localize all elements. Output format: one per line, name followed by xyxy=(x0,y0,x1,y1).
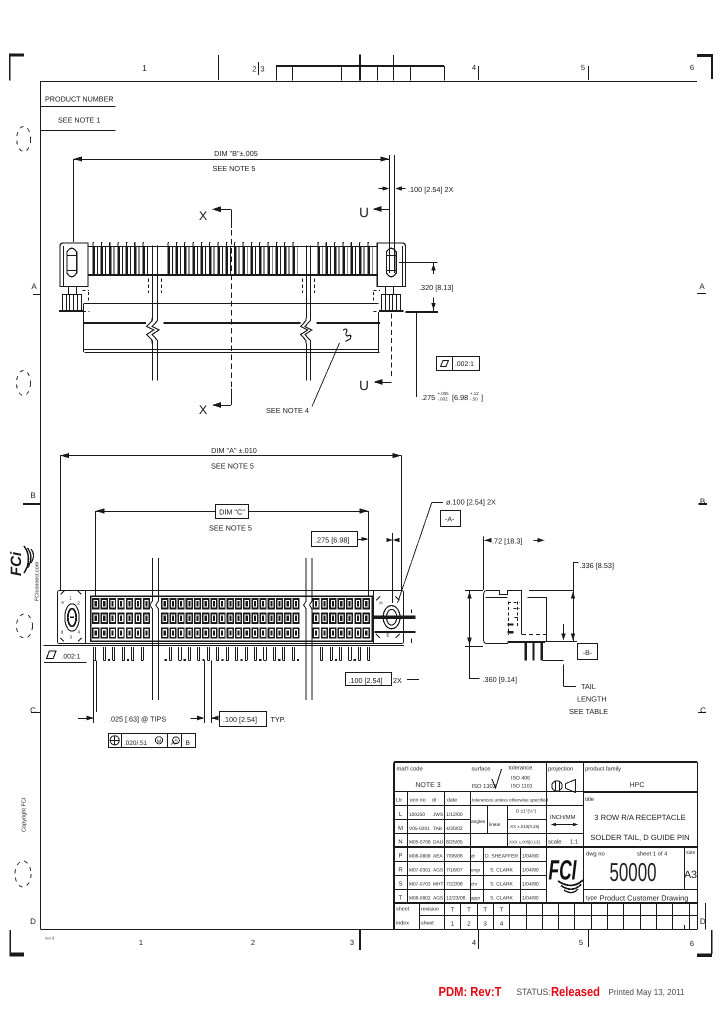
svg-text:linear: linear xyxy=(489,822,501,828)
svg-text:.275 [6.98]: .275 [6.98] xyxy=(315,536,350,545)
top sheet-index strip xyxy=(276,65,444,67)
svg-text:sheet: sheet xyxy=(396,907,410,913)
svg-text:date: date xyxy=(447,798,457,804)
svg-text:U: U xyxy=(359,378,369,393)
dimension .100 TYP tails xyxy=(204,661,206,724)
svg-text:STATUS:: STATUS: xyxy=(517,987,551,997)
svg-text:SOLDER TAIL, D GUIDE PIN: SOLDER TAIL, D GUIDE PIN xyxy=(590,833,689,842)
svg-text:C: C xyxy=(700,706,706,715)
dimension .336 [8.53] xyxy=(573,562,575,642)
section line U dashed xyxy=(391,314,393,379)
svg-text:7/06/06: 7/06/06 xyxy=(446,854,463,860)
svg-text:X: X xyxy=(199,403,208,417)
front view right guide tiny tick marks xyxy=(411,610,413,614)
section view top line to dim 336 xyxy=(529,590,573,592)
svg-text:6: 6 xyxy=(690,63,694,72)
top zone tick after 4 xyxy=(478,66,480,80)
svg-text:DIM "A" ±.010: DIM "A" ±.010 xyxy=(211,446,257,455)
dimension .320 [8.13] xyxy=(399,262,438,264)
side view right hidden corner dashes xyxy=(374,290,381,292)
svg-text:-A-: -A- xyxy=(445,517,455,524)
front view solder tails xyxy=(93,647,95,660)
section view seat line to datum B xyxy=(545,641,577,643)
svg-text:[6.98: [6.98 xyxy=(452,393,468,402)
side view break line pair right xyxy=(306,246,308,381)
svg-text:D ±1°(½°): D ±1°(½°) xyxy=(516,809,537,814)
svg-text:SEE NOTE 5: SEE NOTE 5 xyxy=(209,524,252,533)
svg-text:1/04/90: 1/04/90 xyxy=(522,882,539,888)
corner bracket bottom-right xyxy=(711,930,713,954)
svg-text:A: A xyxy=(699,282,705,291)
svg-text:title: title xyxy=(585,796,594,803)
side view left guide capsule xyxy=(67,248,77,277)
svg-text:S. CLARK: S. CLARK xyxy=(490,896,513,902)
svg-text:.025 [.63] @ TIPS: .025 [.63] @ TIPS xyxy=(109,715,166,724)
svg-text:-.50: -.50 xyxy=(470,397,478,402)
svg-text:S. CLARK: S. CLARK xyxy=(490,882,513,888)
svg-text:tolerance: tolerance xyxy=(509,765,533,772)
title block outer border xyxy=(394,761,697,763)
section view solder tails xyxy=(525,643,527,660)
side view comb fins xyxy=(92,247,95,274)
svg-text:Copyright FCI: Copyright FCI xyxy=(21,797,28,832)
dimension .72 [18.3] xyxy=(483,537,485,591)
svg-text:-.002: -.002 xyxy=(438,397,449,402)
svg-text:8/25/05: 8/25/05 xyxy=(446,840,463,846)
side view break line pair left xyxy=(152,246,154,381)
svg-text:2X: 2X xyxy=(393,676,402,685)
svg-text:R: R xyxy=(398,867,403,874)
svg-text:5: 5 xyxy=(579,938,583,947)
svg-text:S. CLARK: S. CLARK xyxy=(490,868,513,874)
svg-text:1/04/90: 1/04/90 xyxy=(522,854,539,860)
right zone tick B thick xyxy=(699,503,708,505)
svg-text:FCIconnect.com: FCIconnect.com xyxy=(35,561,41,601)
svg-text:PRODUCT NUMBER: PRODUCT NUMBER xyxy=(45,95,114,104)
product number table xyxy=(41,106,116,108)
svg-text:B: B xyxy=(186,740,191,747)
front view break wavy line pair left xyxy=(150,558,153,700)
svg-text:1: 1 xyxy=(142,63,147,73)
dimension .275 [6.98] boxed xyxy=(312,532,358,547)
bottom zone tick thick xyxy=(359,930,361,950)
svg-text:M07-0703: M07-0703 xyxy=(409,882,431,888)
svg-text:SEE NOTE 5: SEE NOTE 5 xyxy=(213,164,256,173)
dimension DIM A xyxy=(60,455,402,457)
front view break wavy line pair right xyxy=(304,558,307,700)
side view left hidden corner dashes xyxy=(83,290,90,292)
section view tail tip line xyxy=(543,660,564,662)
flatness callout front view xyxy=(44,645,89,647)
svg-text:M08-0902: M08-0902 xyxy=(409,896,431,902)
svg-text:C: C xyxy=(30,706,36,715)
svg-text:surface: surface xyxy=(472,766,491,773)
svg-text:+.12: +.12 xyxy=(470,391,479,396)
svg-text:dwg no: dwg no xyxy=(586,851,605,858)
svg-text:.72 [18.3]: .72 [18.3] xyxy=(492,536,522,545)
svg-text:M05-0708: M05-0708 xyxy=(409,840,431,846)
svg-text:Ltr: Ltr xyxy=(396,798,402,804)
svg-text:SEE NOTE 1: SEE NOTE 1 xyxy=(58,116,100,125)
svg-text:T: T xyxy=(500,907,504,914)
svg-text:2: 2 xyxy=(251,938,255,947)
side view comb top line xyxy=(88,246,377,248)
svg-text:.100 [2.54]: .100 [2.54] xyxy=(223,715,257,724)
svg-text:1:1: 1:1 xyxy=(570,840,578,846)
drawing frame border xyxy=(41,81,698,83)
svg-text:T: T xyxy=(467,907,471,914)
datum B box xyxy=(578,644,598,660)
title block sheet index verticals xyxy=(419,903,421,930)
top zone tick between 1 and 2 xyxy=(218,55,220,80)
svg-text:MHT: MHT xyxy=(433,882,443,888)
side view right ribbed foot xyxy=(382,295,401,311)
svg-text:TAIL: TAIL xyxy=(581,682,596,691)
svg-text:N: N xyxy=(398,840,402,846)
svg-text:FCi: FCi xyxy=(8,551,25,576)
svg-text:M: M xyxy=(157,739,161,745)
front view right guide ovals xyxy=(383,606,400,629)
dimension DIM C xyxy=(95,511,368,513)
svg-text:type: type xyxy=(586,896,597,902)
front view pin columns xyxy=(92,598,99,609)
svg-text:A: A xyxy=(31,282,37,291)
svg-text:NOTE 3: NOTE 3 xyxy=(415,782,440,789)
svg-text:.275: .275 xyxy=(421,393,435,402)
tail length leader xyxy=(563,624,565,637)
svg-text:E: E xyxy=(386,633,389,638)
side view hidden dashes near left break xyxy=(148,279,150,294)
front view left guide block detail xyxy=(61,591,65,595)
svg-text:ISO 1302: ISO 1302 xyxy=(472,783,497,790)
svg-text:size: size xyxy=(686,850,695,856)
svg-text:S: S xyxy=(398,881,402,888)
svg-text:.320 [8.13]: .320 [8.13] xyxy=(419,283,454,292)
right zone tick A xyxy=(697,293,706,295)
registration ellipse top-left margin xyxy=(17,127,31,152)
side view hidden dashes near right break xyxy=(302,279,304,294)
side view left foot neck xyxy=(68,287,70,295)
svg-text:4: 4 xyxy=(472,63,476,72)
svg-text:5: 5 xyxy=(581,63,585,72)
svg-text:TYP.: TYP. xyxy=(271,715,286,724)
svg-text:appr: appr xyxy=(471,896,481,901)
left zone tick B thick xyxy=(23,503,41,505)
svg-text:ø.100 [2.54] 2X: ø.100 [2.54] 2X xyxy=(446,498,496,507)
front view right guide slot thick bar xyxy=(372,616,415,619)
svg-text:.100 [2.54] 2X: .100 [2.54] 2X xyxy=(408,185,454,194)
svg-text:+.005: +.005 xyxy=(438,391,450,396)
svg-text:50000: 50000 xyxy=(610,857,657,887)
front view base line under body xyxy=(58,645,405,647)
section view rear shoulder line xyxy=(527,597,546,599)
section view seating plane thick line xyxy=(507,641,545,643)
svg-text:H: H xyxy=(379,601,382,606)
svg-text:1/12/00: 1/12/00 xyxy=(446,812,463,818)
dimension .025 tip width xyxy=(93,661,95,724)
datum A box xyxy=(441,511,461,527)
dimension .360 [9.14] xyxy=(469,590,471,646)
section view inner face line xyxy=(486,597,508,599)
svg-text:FCI: FCI xyxy=(549,855,578,886)
side view right end block xyxy=(377,243,405,287)
svg-text:SEE NOTE 5: SEE NOTE 5 xyxy=(211,462,254,471)
svg-text:Printed May 13, 2011: Printed May 13, 2011 xyxy=(609,987,685,997)
section view hidden contact dashes xyxy=(508,602,510,636)
svg-text:U: U xyxy=(359,205,369,220)
svg-text:D. SHEAFFER: D. SHEAFFER xyxy=(485,854,518,860)
svg-text:12/23/08: 12/23/08 xyxy=(446,896,466,902)
svg-text:product family: product family xyxy=(585,766,621,773)
right zone tick C xyxy=(698,712,706,714)
svg-text:7/16/07: 7/16/07 xyxy=(446,868,463,874)
corner bracket top-left xyxy=(9,54,24,57)
svg-text:X: X xyxy=(199,209,208,223)
Copyright FCI text left margin rotated xyxy=(21,797,28,832)
svg-text:1: 1 xyxy=(139,938,143,947)
svg-text:V05-0201: V05-0201 xyxy=(409,826,430,832)
corner bracket top-right xyxy=(697,54,713,57)
front view left block edge xyxy=(85,590,87,643)
corner bracket bottom-left xyxy=(10,930,11,956)
front view pin field box xyxy=(91,596,372,641)
svg-text:.XXX ±.005[0.13]: .XXX ±.005[0.13] xyxy=(508,840,540,845)
registration ellipse zone D left margin xyxy=(15,861,31,887)
side view right guide capsule xyxy=(386,248,396,277)
dimension .100 [2.54] 2X bottom boxed xyxy=(346,673,392,686)
dimension arrows at guide pin center xyxy=(386,538,393,542)
svg-text:HPC: HPC xyxy=(630,782,645,789)
side view comb bottom line xyxy=(88,274,377,276)
section view outline xyxy=(486,591,522,635)
svg-text:SEE TABLE: SEE TABLE xyxy=(569,707,608,716)
title block vertical lines xyxy=(407,792,409,904)
svg-text:B: B xyxy=(30,491,35,500)
bottom zone tick after 5 xyxy=(588,930,590,947)
svg-text:ISO 1101: ISO 1101 xyxy=(511,784,533,790)
registration ellipse zone C left margin xyxy=(17,614,33,638)
svg-text:.002:1: .002:1 xyxy=(455,361,474,368)
svg-text:AGS: AGS xyxy=(433,896,443,902)
svg-text:4: 4 xyxy=(472,938,476,947)
svg-text:dr: dr xyxy=(471,854,476,859)
svg-text:mat'l code: mat'l code xyxy=(397,766,423,773)
bottom zone tick after 4 xyxy=(478,930,480,949)
side view seating extension line right xyxy=(406,311,439,313)
side view right guide pin lines xyxy=(389,155,391,273)
svg-text:1/04/90: 1/04/90 xyxy=(522,868,539,874)
svg-text:.XX ±.010[0.25]: .XX ±.010[0.25] xyxy=(509,824,539,829)
svg-text:Released: Released xyxy=(551,984,600,999)
side view connector top outline group xyxy=(59,155,438,380)
svg-text:4/30/02: 4/30/02 xyxy=(446,826,463,832)
title block horizontal lines xyxy=(394,791,583,793)
svg-text:T: T xyxy=(399,895,403,902)
svg-text:revision: revision xyxy=(421,907,439,913)
svg-text:AGS: AGS xyxy=(433,868,443,874)
svg-text:sheet: sheet xyxy=(421,921,434,927)
position tolerance frame xyxy=(109,734,196,748)
svg-text:.020/.51: .020/.51 xyxy=(124,740,148,747)
svg-text:M06-0808: M06-0808 xyxy=(409,854,431,860)
svg-text:T: T xyxy=(451,907,455,914)
section view hidden line to rear xyxy=(522,634,546,636)
svg-text:DIM "C": DIM "C" xyxy=(219,508,245,517)
svg-text:ecn no: ecn no xyxy=(410,798,426,804)
dimension DIM B xyxy=(73,159,389,161)
svg-text:chr: chr xyxy=(471,882,478,887)
side view left ribbed foot xyxy=(63,295,82,311)
svg-text:1/04/90: 1/04/90 xyxy=(522,896,539,902)
front view right guide block detail xyxy=(376,597,380,601)
svg-text:]: ] xyxy=(481,393,483,402)
dimension .275 tail below seating xyxy=(416,312,418,397)
registration ellipse zone B left margin xyxy=(17,371,31,396)
front view right guide lower line xyxy=(374,631,415,633)
svg-text:M: M xyxy=(398,826,403,832)
FCIconnect.com text left margin rotated xyxy=(35,561,41,601)
svg-text:AEA: AEA xyxy=(433,854,443,860)
svg-text:dr: dr xyxy=(432,798,437,804)
left zone tick A xyxy=(33,294,41,296)
svg-text:engr: engr xyxy=(471,868,481,873)
svg-text:scale: scale xyxy=(548,839,562,846)
front view body outline xyxy=(58,591,404,644)
svg-text:2: 2 xyxy=(252,65,256,74)
front view right block edge xyxy=(373,590,375,643)
svg-text:.100 [2.54]: .100 [2.54] xyxy=(349,676,383,685)
side view right foot neck xyxy=(385,287,387,295)
svg-text:3: 3 xyxy=(260,65,264,74)
svg-text:6: 6 xyxy=(690,939,694,948)
svg-text:3: 3 xyxy=(350,938,354,947)
svg-text:angles: angles xyxy=(471,819,486,825)
svg-text:DIM "B"±.005: DIM "B"±.005 xyxy=(214,149,258,158)
side view break zigzag left xyxy=(146,318,163,344)
svg-text:A3: A3 xyxy=(684,869,697,881)
flatness callout top view xyxy=(437,357,480,371)
FCI logo left margin rotated xyxy=(8,546,33,576)
svg-text:Product Customer Drawing: Product Customer Drawing xyxy=(600,894,689,903)
side view body plate xyxy=(83,303,378,305)
svg-text:index: index xyxy=(396,921,409,927)
svg-text:D: D xyxy=(30,917,36,926)
svg-text:M07-0301: M07-0301 xyxy=(409,868,431,874)
bottom zone tick near title block end xyxy=(684,925,686,930)
svg-text:DAU: DAU xyxy=(433,840,444,846)
svg-text:-B-: -B- xyxy=(583,650,593,657)
svg-text:ISO 406: ISO 406 xyxy=(511,776,530,782)
svg-text:tolerances unless otherwise sp: tolerances unless otherwise specified xyxy=(472,798,549,803)
squiggle note 4 xyxy=(343,329,351,341)
svg-text:LENGTH: LENGTH xyxy=(577,695,607,704)
svg-text:PDM: Rev:T: PDM: Rev:T xyxy=(439,984,502,999)
front view tail dots xyxy=(108,659,110,661)
svg-text:projection: projection xyxy=(548,766,573,773)
svg-text:SEE NOTE 4: SEE NOTE 4 xyxy=(266,406,309,415)
svg-text:.360 [9.14]: .360 [9.14] xyxy=(483,675,518,684)
side view break zigzag right xyxy=(300,318,316,344)
svg-text:.336 [8.53]: .336 [8.53] xyxy=(580,561,615,570)
svg-text:3 ROW R/A RECEPTACLE: 3 ROW R/A RECEPTACLE xyxy=(594,813,685,822)
svg-text:rev d: rev d xyxy=(45,936,55,941)
left zone tick C xyxy=(31,712,41,714)
svg-text:100250: 100250 xyxy=(409,812,425,818)
section line X dashed xyxy=(231,230,233,388)
svg-text:T: T xyxy=(483,907,487,914)
svg-text:.002:1: .002:1 xyxy=(62,654,81,661)
svg-text:INCH/MM: INCH/MM xyxy=(550,814,576,821)
svg-text:P: P xyxy=(398,853,402,860)
top zone tick after 5 xyxy=(588,66,590,80)
svg-text:TAB: TAB xyxy=(433,826,442,832)
svg-text:JWS: JWS xyxy=(433,812,443,818)
svg-text:7/22/08: 7/22/08 xyxy=(446,882,463,888)
front view left guide ovals xyxy=(65,604,79,631)
side view left end block xyxy=(60,243,88,287)
